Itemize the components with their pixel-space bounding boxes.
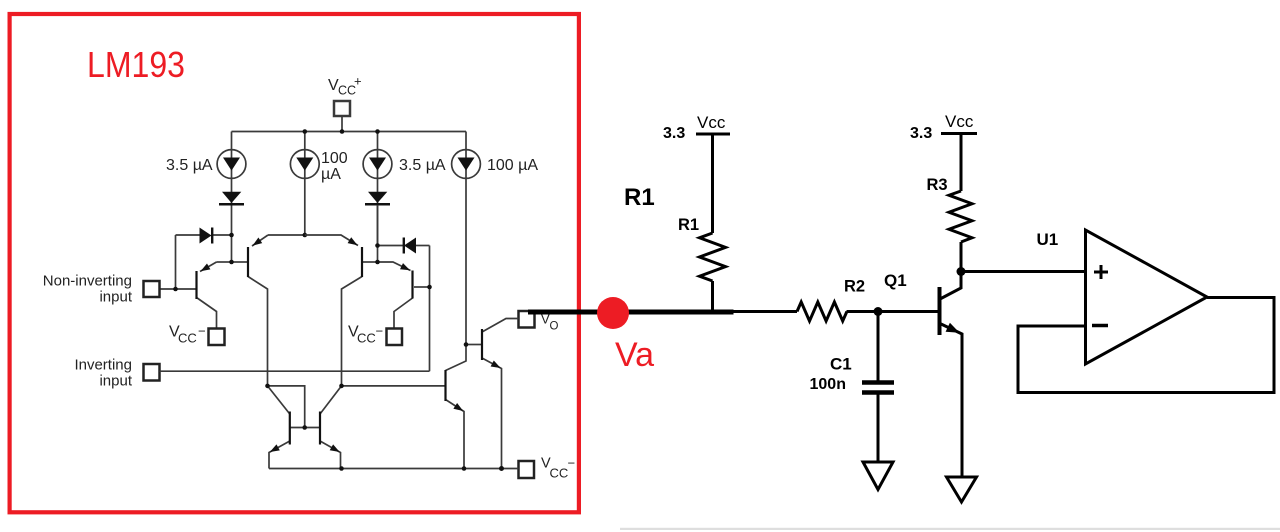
svg-text:Va: Va (615, 336, 654, 374)
svg-text:3.3: 3.3 (910, 125, 932, 142)
svg-text:Q1: Q1 (884, 271, 907, 290)
svg-text:−: − (568, 456, 576, 471)
svg-text:Vcc: Vcc (945, 112, 974, 131)
svg-text:CC: CC (357, 331, 376, 346)
svg-text:100n: 100n (810, 376, 846, 393)
svg-text:µA: µA (321, 166, 341, 183)
svg-text:O: O (550, 321, 559, 333)
svg-text:100 µA: 100 µA (487, 157, 538, 174)
svg-text:Vcc: Vcc (697, 113, 726, 132)
svg-text:input: input (99, 373, 132, 390)
svg-text:R2: R2 (844, 278, 865, 296)
svg-text:+: + (354, 74, 362, 89)
svg-text:−: − (198, 324, 206, 339)
svg-text:R1: R1 (624, 184, 655, 211)
svg-text:LM193: LM193 (87, 44, 185, 85)
svg-text:CC: CC (178, 331, 197, 346)
svg-text:R3: R3 (927, 176, 948, 194)
svg-text:Non-inverting: Non-inverting (43, 273, 132, 290)
svg-text:input: input (99, 289, 132, 306)
svg-text:Inverting: Inverting (74, 357, 132, 374)
svg-text:C1: C1 (830, 355, 852, 374)
svg-text:3.3: 3.3 (663, 125, 685, 142)
svg-text:R1: R1 (678, 216, 699, 234)
svg-text:−: − (376, 324, 384, 339)
svg-text:U1: U1 (1037, 230, 1059, 249)
svg-text:3.5 µA: 3.5 µA (166, 157, 213, 174)
svg-text:100: 100 (321, 150, 348, 167)
svg-text:3.5 µA: 3.5 µA (399, 157, 446, 174)
svg-text:CC: CC (550, 466, 569, 481)
